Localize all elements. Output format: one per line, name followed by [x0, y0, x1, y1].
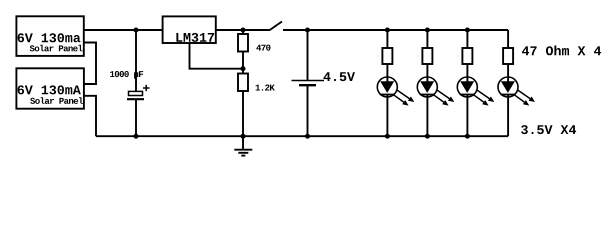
regulator U1 LM317 box: [163, 16, 216, 43]
LED branch 3: [457, 30, 494, 136]
label LED voltage 3.5V X4: [521, 125, 576, 134]
label U1 LM317: [176, 33, 214, 42]
resistor R1 470 body: [238, 34, 248, 52]
ground bar 1: [234, 149, 252, 151]
LED D1 arrowhead 2: [402, 100, 408, 106]
label PV1 name: [30, 45, 83, 52]
label LED resistors 47 Ohm X 4: [522, 46, 601, 56]
junction node: top rail at capacitor: [134, 28, 139, 33]
wire PV1 minus to PV2 plus: [84, 43, 96, 85]
resistor R1 470 bottom lead: [242, 52, 244, 74]
wire top rail PV1 to LM317 input: [84, 29, 163, 31]
battery BT1 positive plate: [292, 80, 325, 82]
capacitor C1 plus sign: [143, 87, 150, 89]
ground bar 2: [238, 152, 248, 154]
wire resistor to LED D1: [386, 64, 388, 82]
junction node: ADJ divider: [241, 66, 246, 71]
ground stub: [242, 136, 244, 150]
solar panel PV1 box: [16, 16, 83, 56]
label BT1 value 4.5V: [324, 72, 356, 81]
junction node: top rail branch 3: [465, 28, 470, 33]
junction node: top rail at battery: [305, 28, 310, 33]
LED D1 circle: [377, 77, 397, 97]
LED branch 2: [417, 30, 454, 136]
resistor R2 1.2K body: [238, 74, 248, 92]
LED D1 cathode bar: [380, 94, 394, 96]
capacitor C1 bottom lead: [135, 99, 137, 136]
wire switch to top-right corner rail: [283, 29, 508, 31]
junction node: top rail at R1: [241, 28, 246, 33]
junction node: bottom rail branch 2: [425, 134, 430, 139]
capacitor C1 negative plate: [127, 98, 144, 100]
battery BT1 bottom lead: [307, 85, 309, 136]
label C1 value 1000 uF: [110, 71, 143, 79]
junction node: top rail branch 2: [425, 28, 430, 33]
LED branch group (resistor + LED) x4: [377, 30, 414, 136]
battery BT1 top lead: [307, 30, 309, 81]
wire bottom rail: [96, 135, 508, 137]
switch S1 blade: [269, 22, 282, 31]
solar panel PV2 box: [16, 68, 84, 108]
label PV2 value: [18, 85, 81, 94]
resistor R2 1.2K bottom lead: [242, 91, 244, 136]
label PV1 value: [18, 33, 81, 42]
LED D1 arrow 2: [393, 94, 404, 102]
capacitor C1 positive plate: [129, 91, 143, 95]
LED D1 arrow 1: [397, 90, 410, 99]
junction node: bottom rail at ground: [241, 134, 246, 139]
junction node: bottom rail at battery: [305, 134, 310, 139]
LED D1 arrowhead 1: [408, 97, 414, 103]
junction node: bottom rail at capacitor: [134, 134, 139, 139]
LED D1 anode triangle: [380, 81, 394, 93]
resistor R1 470 top lead: [242, 30, 244, 34]
junction node: bottom rail branch 3: [465, 134, 470, 139]
junction node: top rail branch 1: [385, 28, 390, 33]
wire branch 1 top lead: [386, 30, 388, 48]
label PV2 name: [30, 97, 83, 104]
wire LM317 ADJ pin: [190, 44, 244, 69]
LED branch 4: [498, 30, 535, 136]
junction node: bottom rail branch 1: [385, 134, 390, 139]
resistor R3 47 Ohm body: [382, 48, 392, 64]
label R1 value 470: [256, 45, 270, 51]
capacitor C1 top lead: [135, 30, 137, 91]
ground bar 3: [241, 155, 245, 157]
wire PV2 minus down to bottom rail: [84, 96, 96, 136]
wire LM317 output to switch: [216, 29, 269, 31]
label R2 value 1.2K: [256, 85, 275, 91]
battery BT1 negative plate: [299, 84, 316, 86]
wire LED to bottom rail: [386, 95, 388, 137]
